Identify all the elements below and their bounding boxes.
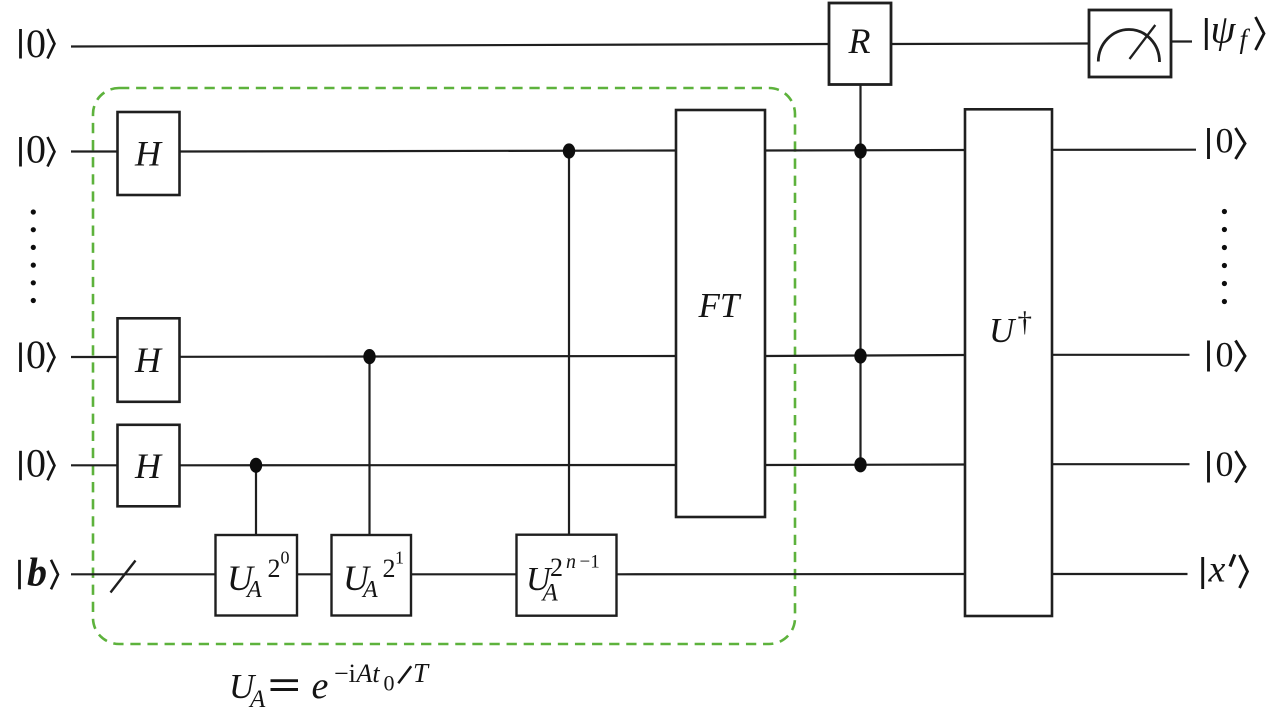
ket label |0> wire2 right [1209, 121, 1246, 161]
ket label |psi_f> wire1 right [1206, 7, 1264, 55]
control vertical from R [859, 85, 861, 466]
gate UA^2^1 box [332, 535, 412, 616]
control vertical to UA^2^1 [368, 357, 370, 535]
gate Udagger box [965, 109, 1052, 616]
left vertical ellipsis dots [31, 209, 36, 214]
ket label |0> wire4 left [21, 440, 55, 485]
wire w2 [71, 150, 118, 152]
svg-text:0: 0 [1216, 444, 1234, 484]
svg-text:−1: −1 [580, 552, 600, 573]
svg-text:0: 0 [26, 127, 46, 172]
svg-text:0: 0 [1216, 121, 1234, 161]
svg-text:0: 0 [1216, 335, 1234, 375]
svg-text:0: 0 [26, 332, 46, 377]
ket label |0> wire2 left [21, 127, 55, 172]
svg-text:†: † [1018, 306, 1033, 338]
ket label |0> wire1 left [21, 21, 55, 66]
control vertical to UA^2^n-1 [568, 151, 570, 535]
svg-text:U: U [989, 311, 1017, 350]
svg-text:A: A [541, 580, 559, 607]
ket label |0> wire4 right [1209, 444, 1246, 484]
control dot on w3 (R column) [854, 348, 866, 363]
svg-text:f: f [1240, 24, 1251, 54]
wire w1 right stub [1171, 40, 1192, 42]
control dot on w2 (UA^2^n-1) [563, 143, 575, 158]
svg-text:ψ: ψ [1211, 7, 1237, 52]
wire w1 middle segment [891, 42, 1089, 45]
control dot on w4 (UA^2^0) [250, 458, 262, 473]
control dot on w3 (UA^2^1) [363, 349, 375, 364]
svg-text:1: 1 [395, 548, 404, 568]
control dot on w2 (R column) [854, 143, 866, 158]
svg-text:R: R [848, 21, 871, 61]
wire w1 left segment [71, 44, 829, 47]
svg-text:−i: −i [334, 659, 356, 688]
svg-text:0: 0 [26, 440, 46, 485]
gate H3 box [118, 425, 180, 507]
svg-text:H: H [134, 134, 163, 174]
gate H1 box [118, 112, 180, 195]
svg-text:e: e [312, 665, 329, 707]
svg-text:A: A [248, 686, 266, 711]
svg-text:b: b [27, 549, 47, 594]
svg-text:n: n [566, 551, 576, 573]
ket label |0> wire3 left [21, 332, 55, 377]
gate R box [829, 3, 891, 85]
measurement box [1089, 10, 1171, 77]
svg-text:0: 0 [26, 21, 46, 66]
ket label |b> wire5 left [20, 549, 59, 594]
svg-text:H: H [134, 340, 163, 380]
gate UA^2^0 box [216, 535, 298, 616]
svg-text:0: 0 [281, 548, 290, 568]
ket label |x'> wire5 right [1203, 549, 1248, 591]
svg-text:FT: FT [698, 286, 742, 325]
svg-text:T: T [413, 658, 430, 688]
svg-text:2: 2 [550, 553, 563, 582]
measurement meter arc [1098, 29, 1159, 62]
svg-text:0: 0 [384, 671, 395, 696]
ket label |0> wire3 right [1209, 335, 1246, 375]
gate FT box [676, 110, 765, 517]
svg-text:2: 2 [383, 554, 396, 583]
wire w4 [71, 464, 118, 466]
svg-text:A: A [361, 577, 378, 603]
right vertical ellipsis dots [1222, 209, 1227, 214]
svg-text:A: A [245, 577, 262, 603]
measurement meter needle [1130, 25, 1156, 59]
svg-text:H: H [134, 446, 163, 486]
svg-text:x: x [1208, 549, 1226, 591]
wire w5 [71, 573, 216, 575]
dashed box (eigenvalue estimation block) [93, 88, 795, 644]
gate H2 box [118, 318, 180, 402]
gate UA^2^n-1 box [517, 535, 617, 616]
bus slash on w5 [111, 561, 136, 593]
formula U_A = e^-iAt0/T [229, 658, 430, 711]
svg-text:2: 2 [268, 554, 281, 583]
control vertical to UA^2^0 [255, 465, 257, 535]
svg-text:At: At [355, 659, 381, 688]
wire w3 [71, 356, 118, 358]
control dot on w4 (R column) [854, 457, 866, 472]
